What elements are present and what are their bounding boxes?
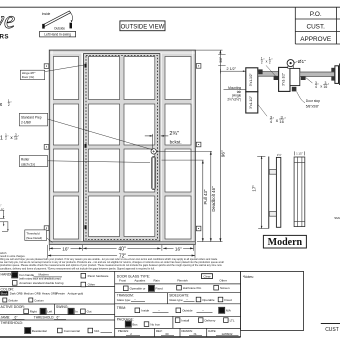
glass pane left sidelite row 3 [53, 149, 78, 192]
svg-text:N/A: N/A [226, 309, 231, 313]
handle detail: 1-1/2in width mini dimension [293, 151, 295, 155]
dimension 16in right sidelite [163, 247, 193, 249]
svg-text:Iron handle: Iron handle [19, 273, 34, 277]
svg-text:Ø1": Ø1" [298, 59, 306, 65]
svg-text:conditions, delivery and forms: conditions, delivery and forms of paymen… [0, 267, 155, 270]
svg-text:Screen: Screen [220, 286, 230, 290]
svg-text:In: In [75, 310, 78, 314]
svg-text:SM¼: SM¼ [334, 216, 340, 220]
svg-text:Threshold: Threshold [26, 232, 40, 236]
glass pane door col 1 row 3 [88, 149, 119, 192]
label: Standard Prep 2-1/8 [19, 113, 47, 126]
svg-text:Custom: Custom [34, 298, 44, 302]
svg-text:Rain: Rain [154, 278, 161, 282]
customer signature line [321, 323, 340, 325]
svg-text:Pewter: Pewter [56, 292, 65, 296]
svg-text:Delivery: Delivery [205, 318, 216, 322]
svg-text:5/8": 5/8" [219, 56, 223, 63]
section: jamb tube 3x1-1/2 upper [246, 68, 258, 92]
svg-text:PIECES:: PIECES: [118, 329, 129, 333]
svg-text:DATE:: DATE: [208, 329, 216, 333]
glass pane door col 2 row 4 [124, 196, 155, 237]
svg-text:Box: Box [132, 322, 138, 326]
svg-text:Inside: Inside [141, 309, 149, 313]
order form grid lines [0, 270, 304, 272]
section: door rail bar left [258, 72, 279, 77]
dimension 40in door [83, 247, 161, 249]
gap between left sidelite mullion and door [81, 53, 83, 241]
svg-text:RS: RS [0, 34, 9, 41]
section: door rail bar right [300, 72, 335, 76]
swing diagram: left door post [42, 24, 45, 29]
glass pane left sidelite row 4 [53, 196, 78, 239]
svg-text:2½"x2½"): 2½"x2½") [227, 98, 241, 102]
svg-text:*Notes:: *Notes: [243, 275, 254, 279]
section: right end jamb piece [335, 66, 339, 84]
svg-text:1: 1 [0, 136, 3, 142]
svg-text:--: -- [158, 308, 160, 312]
svg-text:No box: No box [150, 322, 160, 326]
svg-text:TRIM:: TRIM: [117, 306, 126, 310]
bottom dimension extension lines [48, 245, 50, 251]
svg-text:DRAWN:: DRAWN: [182, 329, 193, 333]
swing diagram: open door bar [43, 11, 70, 27]
swing diagram: right door post [70, 23, 73, 29]
svg-text:3"x1-1/2": 3"x1-1/2" [249, 96, 253, 109]
handle detail: door face line [268, 157, 270, 229]
svg-text:Left Hand In-swing: Left Hand In-swing [44, 33, 71, 37]
door weatherstrip dashed border [86, 56, 157, 240]
svg-text:1 1/2": 1 1/2" [296, 152, 303, 155]
deadbolt prep circle [151, 149, 156, 154]
handle model label: Modern [263, 235, 306, 248]
door leaf outline [84, 54, 160, 242]
gap between door and right sidelite [160, 53, 162, 241]
svg-text:LTL: LTL [230, 318, 235, 322]
svg-text:REV:: REV: [156, 329, 163, 333]
svg-text:Fixed: Fixed [224, 298, 232, 302]
svg-text:″: ″ [18, 134, 19, 138]
svg-text:40": 40" [118, 246, 126, 252]
svg-text:Door (3x): Door (3x) [22, 75, 35, 79]
section: tab block under bar [274, 76, 279, 80]
svg-text:Fixed: Fixed [155, 287, 163, 291]
svg-text:--: -- [186, 298, 188, 302]
svg-text:Door stop: Door stop [306, 99, 320, 103]
svg-text:APPROVE: APPROVE [300, 36, 331, 43]
section: tab block on jamb [258, 69, 262, 74]
right dimension deadbolt 46in [157, 150, 213, 152]
svg-text:x: x [320, 83, 322, 88]
svg-text:Black: Black [1, 292, 8, 296]
svg-text:Residential: Residential [32, 329, 47, 333]
svg-text:x: x [266, 60, 268, 64]
svg-text:Hurricane film: Hurricane film [183, 286, 202, 290]
section: lock stile tube 3x1-1/2 [279, 67, 290, 91]
backset dimension 2-3/4in [152, 134, 154, 149]
section: door stop label [292, 87, 297, 92]
svg-text:SWING:: SWING: [56, 305, 68, 309]
glass pane door col 2 row 3 [124, 149, 155, 192]
svg-text:Other: Other [88, 283, 96, 287]
handle detail: grip bar side view [276, 157, 280, 227]
svg-text:Flemish: Flemish [177, 278, 188, 282]
svg-text:Glass type:: Glass type: [117, 298, 131, 302]
svg-text:Antique-gold: Antique-gold [68, 292, 84, 296]
svg-text:Inside: Inside [42, 12, 51, 16]
svg-text:Frost: Frost [119, 278, 126, 282]
section: jamb tube 3x1-1/2 lower [246, 92, 258, 113]
svg-text:Gelcote: Gelcote [8, 298, 18, 302]
mounting tabs on frame sides [44, 64, 49, 69]
svg-text:Clear: Clear [203, 275, 210, 279]
section: handle shank circle 1in [288, 66, 294, 68]
svg-text:Standard Prep: Standard Prep [21, 115, 42, 119]
section: tab block under right bar [301, 76, 306, 80]
svg-text:bckst.: bckst. [170, 139, 182, 144]
svg-text:Dark ORB: Dark ORB [10, 292, 23, 296]
glass pane right sidelite row 2 [165, 104, 191, 145]
glass pane door col 1 row 4 [88, 196, 119, 237]
svg-text:16: 16 [324, 85, 328, 89]
svg-text:2-1/8Ø: 2-1/8Ø [21, 121, 31, 125]
svg-text:Glass type:: Glass type: [169, 298, 183, 302]
glass pane door col 2 row 1 [124, 57, 155, 100]
hinge marks (3x) on door hinge stile [85, 64, 87, 68]
svg-text:Commercial: Commercial [64, 329, 80, 333]
svg-text:CUST.: CUST. [306, 24, 325, 31]
svg-text:Heavy ORB: Heavy ORB [42, 292, 57, 296]
sheet top border line [0, 6, 295, 8]
handle detail: front view [294, 157, 305, 227]
section: door stop strip [290, 68, 300, 85]
svg-text:catch (1x): catch (1x) [21, 162, 35, 166]
svg-text:″: ″ [7, 134, 8, 138]
svg-text:Medium ORB: Medium ORB [24, 292, 41, 296]
glass pane door col 1 row 1 [88, 57, 119, 100]
svg-text:Install: Install [181, 318, 189, 322]
svg-text:2¾": 2¾" [169, 131, 179, 137]
notes box [241, 271, 304, 330]
svg-text:Modern: Modern [39, 273, 50, 277]
svg-text:N/A: N/A [94, 329, 99, 333]
glass pane door col 1 row 2 [88, 104, 119, 145]
svg-text:(See Detail): (See Detail) [26, 236, 42, 240]
frame inner white separation lines [51, 51, 53, 244]
glass pane right sidelite row 1 [165, 57, 191, 100]
svg-text:CUST: CUST [325, 327, 339, 333]
svg-text:Pull 43": Pull 43" [203, 189, 208, 204]
svg-text:Outside: Outside [182, 309, 193, 313]
glass pane right sidelite row 4 [165, 196, 191, 239]
svg-text:P.O.: P.O. [310, 11, 322, 18]
glass pane right sidelite row 3 [165, 149, 191, 192]
svg-text:6": 6" [15, 316, 18, 320]
svg-text:Operable: Operable [202, 298, 215, 302]
P.O./CUST./APPROVE table [295, 6, 340, 8]
svg-text:ive: ive [0, 7, 15, 34]
svg-text:2 1/2": 2 1/2" [227, 67, 237, 71]
svg-text:16": 16" [175, 246, 182, 251]
svg-text:Roller: Roller [21, 158, 30, 162]
svg-text:1½": 1½" [277, 153, 282, 157]
right dimension pull 43in [162, 159, 204, 161]
swing diagram: swing arc [71, 13, 73, 22]
svg-text:5/8"x5/8": 5/8"x5/8" [306, 105, 320, 109]
svg-text:3"x1-1/2": 3"x1-1/2" [249, 73, 253, 86]
svg-text:Panic hardware: Panic hardware [88, 274, 109, 278]
svg-text:--: -- [202, 308, 204, 312]
svg-text:Deadbolt 46": Deadbolt 46" [211, 186, 216, 212]
svg-text:THRESHOLD:: THRESHOLD: [34, 316, 55, 320]
svg-text:THRESHOLD:: THRESHOLD: [1, 321, 24, 325]
svg-text:ACTIVE DOOR:: ACTIVE DOOR: [1, 305, 25, 309]
label: Roller catch (1x) [19, 156, 47, 167]
svg-text:--: -- [134, 298, 136, 302]
svg-text:3"x1-1/2": 3"x1-1/2" [281, 73, 285, 86]
glass pane door col 2 row 2 [124, 104, 155, 145]
handle detail: 17in dimension [257, 155, 265, 157]
threshold sill [49, 241, 195, 244]
svg-text:6": 6" [57, 316, 60, 320]
handle detail: standoff posts [269, 170, 276, 175]
svg-text:Aqualex: Aqualex [134, 278, 145, 282]
door pull handle (elevation) [152, 157, 156, 190]
right dimension 96in overall height [196, 49, 223, 51]
dimension 16in left sidelite [49, 247, 82, 249]
dimension 72in overall [48, 255, 195, 257]
svg-text:96": 96" [221, 150, 226, 157]
svg-text:(with rotary latch and deadbol: (with rotary latch and deadbolt prep) [19, 277, 61, 281]
svg-text:American standard double borin: American standard double boring [19, 281, 64, 285]
swing diagram: Left Hand In-swing box [40, 31, 76, 37]
svg-text:x¾": x¾" [0, 204, 1, 208]
svg-text:17": 17" [252, 185, 257, 192]
svg-text:16": 16" [62, 246, 69, 251]
label: Hinge 7in Door (3x) [20, 70, 44, 79]
glass pane left sidelite row 1 [53, 57, 78, 100]
glass pane left sidelite row 2 [53, 104, 78, 145]
label: Threshold (See Detail) [25, 230, 47, 241]
svg-text:Other: Other [219, 278, 227, 282]
svg-text:JAMB:: JAMB: [1, 316, 11, 320]
svg-text:Operable or: Operable or [130, 287, 146, 291]
svg-text:Right: Right [30, 310, 37, 314]
svg-text:Modern: Modern [268, 237, 303, 248]
door unit elevation: outer frame [49, 50, 195, 244]
svg-text:OUTSIDE VIEW: OUTSIDE VIEW [121, 24, 165, 30]
svg-text:Left: Left [47, 310, 52, 314]
OUTSIDE VIEW title box [120, 21, 165, 31]
svg-text:Out: Out [87, 310, 92, 314]
svg-text:Outside: Outside [54, 26, 65, 30]
